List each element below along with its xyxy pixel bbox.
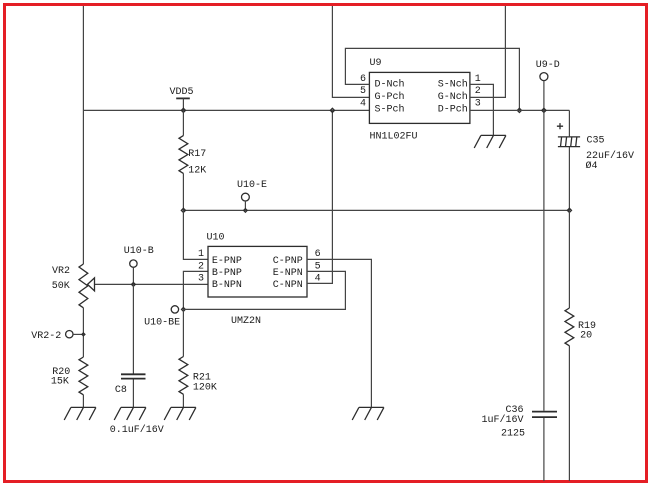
svg-text:B-PNP: B-PNP: [212, 268, 242, 279]
svg-text:3: 3: [198, 274, 204, 285]
node junction pin4 rail: [329, 107, 335, 113]
wire left vertical from top border to VR2: [82, 6, 84, 264]
svg-text:C35: C35: [587, 136, 605, 147]
ground below C8: [114, 407, 146, 420]
svg-text:12K: 12K: [188, 165, 206, 176]
svg-text:S-Pch: S-Pch: [375, 103, 405, 115]
svg-text:VR2-2: VR2-2: [31, 331, 61, 342]
svg-text:E-PNP: E-PNP: [212, 256, 242, 267]
svg-text:S-Nch: S-Nch: [438, 79, 468, 91]
node junction loop/rail: [516, 107, 522, 113]
resistor R17: [179, 110, 206, 210]
svg-text:50K: 50K: [52, 281, 70, 292]
svg-text:B-NPN: B-NPN: [212, 280, 242, 291]
ground below U9 pin 1: [474, 135, 506, 148]
power VDD5: [170, 87, 194, 111]
svg-text:D-Pch: D-Pch: [438, 103, 468, 115]
op-amp U9 box: [360, 58, 481, 143]
svg-text:U10: U10: [207, 232, 225, 243]
svg-text:C-NPN: C-NPN: [273, 280, 303, 291]
svg-text:1uF/16V: 1uF/16V: [481, 414, 523, 426]
svg-text:20: 20: [580, 331, 592, 342]
svg-text:G-Pch: G-Pch: [375, 91, 405, 103]
ground below R21: [164, 407, 196, 420]
svg-text:2: 2: [198, 262, 204, 273]
svg-text:U10-B: U10-B: [124, 246, 154, 257]
wire U9 pin 6 loop over the top: [345, 48, 519, 110]
svg-text:R17: R17: [188, 149, 206, 160]
svg-text:120K: 120K: [193, 383, 217, 394]
node VR2-2: [31, 331, 86, 342]
wire rail y=210 from R17 to C35 branch: [183, 209, 569, 211]
svg-text:1: 1: [475, 74, 481, 85]
capacitor C8: [110, 284, 164, 435]
wire U10 pin 5 loop to U10-BE: [183, 271, 345, 309]
op-amp U10 box: [198, 232, 321, 327]
node U10-BE: [144, 306, 186, 329]
node junction VDD5/R17: [180, 107, 186, 113]
svg-text:22uF/16V: 22uF/16V: [586, 150, 634, 162]
svg-text:5: 5: [360, 86, 366, 97]
svg-text:15K: 15K: [51, 377, 69, 388]
potentiometer VR2: [52, 264, 95, 308]
wire U10 pin 4 vertical up to VDD5 rail and top border: [307, 110, 332, 283]
ground below R20: [64, 407, 96, 420]
ground below U10 pin 6: [352, 407, 384, 420]
svg-text:U9-D: U9-D: [536, 60, 560, 71]
svg-text:G-Nch: G-Nch: [438, 91, 468, 103]
svg-text:C8: C8: [115, 385, 127, 396]
resistor R20: [51, 357, 88, 407]
svg-text:VDD5: VDD5: [170, 87, 194, 98]
svg-text:U9: U9: [370, 58, 382, 69]
svg-text:3: 3: [475, 99, 481, 110]
node U10-B: [124, 246, 154, 287]
resistor R19: [565, 210, 596, 481]
node junction rail end at C35 branch: [566, 207, 572, 213]
svg-text:6: 6: [315, 249, 321, 260]
svg-text:Ø4: Ø4: [586, 160, 598, 172]
wire base rail y=284 from VR2 wiper to U10 pin 3: [94, 283, 208, 285]
wire U9 pin 3 rail to C35 branch: [470, 109, 570, 111]
wire U10 pin 6 to ground: [307, 259, 371, 407]
svg-text:D-Nch: D-Nch: [375, 79, 405, 91]
wire U9-D vertical down to C36: [543, 110, 545, 410]
capacitor C35 polarized: [557, 110, 634, 210]
svg-text:HN1L02FU: HN1L02FU: [370, 131, 418, 142]
svg-text:2: 2: [475, 86, 481, 97]
svg-text:E-NPN: E-NPN: [273, 268, 303, 279]
svg-text:VR2: VR2: [52, 266, 70, 277]
wire VDD5 rail horizontal to U9 pin 4: [83, 109, 369, 111]
svg-text:0.1uF/16V: 0.1uF/16V: [110, 424, 164, 436]
svg-text:6: 6: [360, 74, 366, 85]
svg-text:4: 4: [360, 99, 366, 110]
svg-text:C-PNP: C-PNP: [273, 256, 303, 267]
wire U9 pin 1 to ground: [470, 84, 494, 135]
capacitor C36: [481, 405, 557, 481]
svg-text:1: 1: [198, 249, 204, 260]
resistor R21: [179, 309, 217, 407]
node junction R17 bottom: [180, 207, 186, 213]
svg-text:U10-BE: U10-BE: [144, 317, 180, 328]
wire top border down to U9 pin 5: [332, 6, 369, 97]
wire U10 pin 2 to U10-BE junction: [183, 271, 208, 309]
node U10-E: [237, 180, 267, 213]
wire U9 pin 2 up to top border: [470, 6, 506, 97]
wire from rail down to U10 pin 1: [183, 210, 208, 259]
wire VR2 bottom to R20: [82, 308, 84, 357]
svg-text:2125: 2125: [501, 428, 525, 439]
svg-text:U10-E: U10-E: [237, 180, 267, 191]
node U9-D: [536, 60, 560, 113]
svg-text:UMZ2N: UMZ2N: [231, 316, 261, 327]
